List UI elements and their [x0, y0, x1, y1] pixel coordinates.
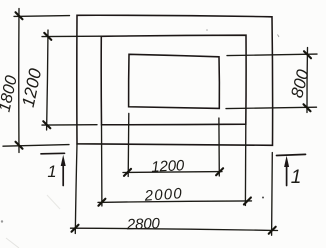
extension line down from inner rect right corner: [218, 118, 220, 176]
dimension line 1200 (bottom): [123, 171, 222, 174]
extension line down from middle rect left corner: [101, 125, 103, 206]
svg-text:1200: 1200: [151, 157, 185, 176]
tick 1800 top: [16, 12, 23, 19]
section mark left: arrow head: [61, 155, 66, 166]
svg-text:2800: 2800: [126, 215, 161, 233]
faint smudge bottom-left diagonal: [6, 238, 19, 248]
extension line bottom (middle rect bottom, for 1200 left): [42, 124, 97, 126]
tick 1200-left top: [44, 33, 51, 40]
extension line top-right (inner rect top, for 800): [227, 54, 317, 56]
middle rectangle (2000 x 1200): [101, 35, 246, 125]
section mark right: arrow head: [284, 156, 289, 167]
extension line bottom-right (inner rect bottom, for 800): [226, 107, 317, 108]
svg-text:1: 1: [47, 163, 56, 181]
tick 2000 left: [98, 199, 105, 206]
section mark right: cut line: [277, 154, 306, 155]
faint smudge left-middle diagonal: [47, 195, 60, 209]
scan speck near outer right edge: [278, 35, 280, 38]
extension line down from middle rect right corner: [244, 124, 246, 205]
scan speck bottom left: [1, 220, 3, 222]
section mark left: cut line: [41, 152, 65, 155]
scan speck right of mid-right extension: [262, 197, 264, 199]
extension line down from inner rect left corner: [127, 113, 130, 176]
tick 2800 right: [269, 227, 276, 234]
dimension line 2000 (bottom): [98, 201, 252, 203]
tick 2800 left: [72, 225, 79, 232]
dimension line 1200 (vertical, left): [47, 30, 48, 130]
svg-text:2000: 2000: [143, 185, 183, 205]
inner rectangle (1200 x 800): [129, 54, 220, 108]
dimension line 1800 (vertical, left): [18, 9, 20, 153]
tick 1800 bottom: [16, 142, 23, 149]
extension line bottom-left (outer rect bottom, for 1800): [3, 145, 69, 147]
extension line down from outer rect right corner: [271, 153, 274, 236]
tick 1200-bottom left: [124, 169, 131, 176]
dimension line 800 (vertical, right): [306, 48, 309, 113]
tick 2000 right: [244, 198, 251, 205]
tick 1200-left bottom: [43, 121, 50, 128]
extension line top-left (outer rect top, for 1800): [14, 15, 70, 18]
dimension line 2800 (bottom): [71, 228, 278, 230]
tick 800 top: [304, 51, 311, 58]
extension line down from outer rect left corner: [75, 144, 77, 234]
tick 800 bottom: [304, 104, 311, 111]
scan speck top middle: [206, 29, 208, 31]
section mark left: arrow shaft: [62, 162, 64, 186]
outer rectangle (2800 x 1800 plan): [77, 15, 273, 145]
section mark right: arrow shaft: [286, 163, 288, 186]
extension line top (middle rect top, for 1200 left): [42, 35, 101, 37]
svg-text:1: 1: [291, 167, 302, 188]
tick 1200-bottom right: [216, 168, 223, 175]
